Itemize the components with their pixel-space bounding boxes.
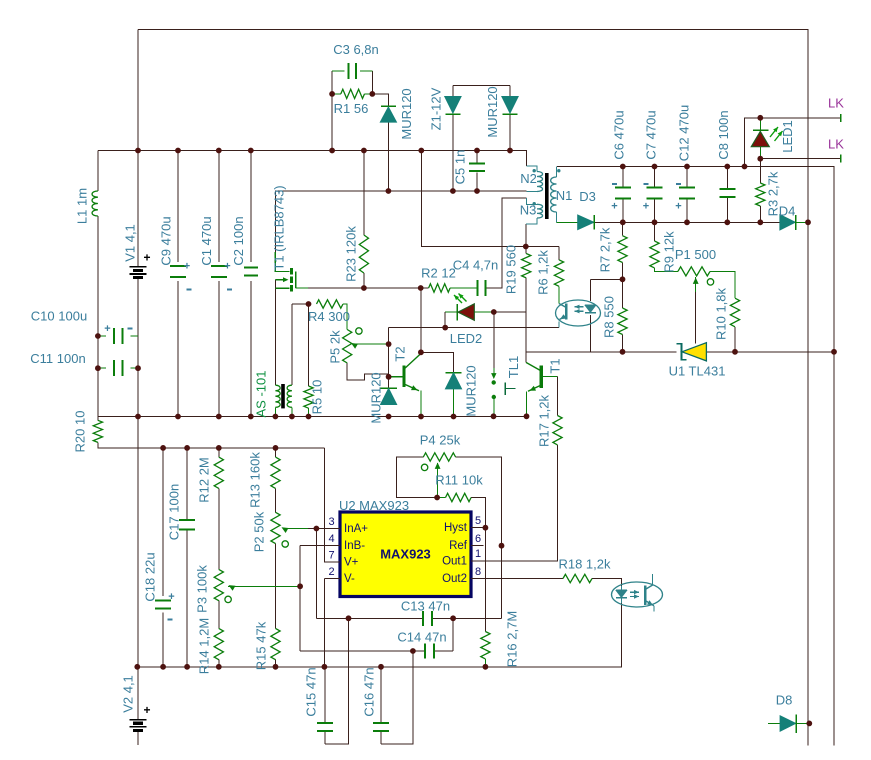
- svg-text:C2 100n: C2 100n: [231, 216, 246, 265]
- svg-text:R9 12k: R9 12k: [662, 231, 677, 273]
- svg-text:5: 5: [475, 515, 481, 527]
- svg-text:R20 10: R20 10: [73, 411, 88, 453]
- svg-text:L1 1m: L1 1m: [74, 188, 89, 224]
- svg-text:8: 8: [475, 566, 481, 578]
- svg-text:U2 MAX923: U2 MAX923: [339, 498, 409, 513]
- svg-text:+: +: [184, 261, 190, 273]
- svg-text:P5 2k: P5 2k: [328, 330, 343, 364]
- svg-text:MUR120: MUR120: [485, 86, 500, 137]
- svg-text:R11 10k: R11 10k: [435, 473, 483, 488]
- svg-text:R13 160k: R13 160k: [248, 452, 263, 508]
- svg-text:+: +: [611, 201, 617, 213]
- svg-text:Ref: Ref: [449, 540, 468, 552]
- svg-text:LED1: LED1: [780, 120, 795, 153]
- svg-text:InA+: InA+: [344, 523, 368, 535]
- svg-text:T1: T1: [548, 358, 563, 373]
- svg-text:MUR120: MUR120: [369, 372, 384, 423]
- svg-text:R8 550: R8 550: [602, 296, 617, 338]
- svg-text:C7 470u: C7 470u: [644, 110, 659, 159]
- svg-text:R1 56: R1 56: [334, 101, 369, 116]
- svg-text:C17 100n: C17 100n: [167, 484, 182, 540]
- svg-text:V-: V-: [344, 573, 355, 585]
- svg-text:R10 1,8k: R10 1,8k: [714, 287, 729, 340]
- svg-text:V+: V+: [344, 557, 359, 569]
- svg-text:V2 4,1: V2 4,1: [121, 675, 136, 713]
- svg-text:C8 100n: C8 100n: [716, 110, 731, 159]
- svg-text:+: +: [675, 201, 681, 213]
- svg-text:1: 1: [475, 548, 481, 560]
- svg-text:P2 50k: P2 50k: [252, 511, 267, 552]
- svg-text:T1 (IRLB8743): T1 (IRLB8743): [272, 185, 287, 270]
- svg-text:C10 100u: C10 100u: [31, 309, 87, 324]
- svg-text:C3 6,8n: C3 6,8n: [333, 42, 379, 57]
- svg-text:C15 47n: C15 47n: [304, 667, 319, 716]
- svg-text:R23 120k: R23 120k: [344, 226, 359, 282]
- svg-text:C16 47n: C16 47n: [362, 667, 377, 716]
- svg-text:MUR120: MUR120: [463, 365, 478, 416]
- svg-text:+: +: [224, 261, 230, 273]
- svg-text:TL1: TL1: [506, 356, 521, 378]
- svg-text:Out1: Out1: [442, 555, 467, 567]
- svg-text:C13 47n: C13 47n: [401, 599, 450, 614]
- svg-text:R7 2,7k: R7 2,7k: [598, 227, 613, 272]
- svg-text:Z1-12V: Z1-12V: [429, 87, 444, 130]
- svg-text:+: +: [143, 251, 150, 265]
- svg-text:LK: LK: [828, 137, 844, 152]
- svg-text:Out2: Out2: [442, 573, 467, 585]
- svg-text:+: +: [104, 323, 110, 335]
- svg-text:N1: N1: [556, 188, 573, 203]
- svg-text:P1 500: P1 500: [675, 247, 716, 262]
- svg-text:LK: LK: [828, 96, 844, 111]
- svg-text:C18 22u: C18 22u: [143, 552, 158, 601]
- svg-text:C4 4,7n: C4 4,7n: [453, 258, 499, 273]
- svg-text:N2: N2: [520, 171, 537, 186]
- svg-text:R16 2,7M: R16 2,7M: [505, 611, 520, 667]
- svg-text:R2 12: R2 12: [421, 266, 456, 281]
- svg-text:N3: N3: [520, 203, 537, 218]
- svg-text:R18 1,2k: R18 1,2k: [558, 557, 611, 572]
- svg-text:C9 470u: C9 470u: [159, 216, 174, 265]
- svg-text:AS -101: AS -101: [254, 371, 269, 418]
- svg-text:LED2: LED2: [450, 331, 483, 346]
- svg-text:R4 300: R4 300: [308, 309, 350, 324]
- svg-text:4: 4: [328, 533, 334, 545]
- svg-text:+: +: [143, 703, 150, 717]
- svg-text:R5 10: R5 10: [310, 380, 325, 415]
- svg-text:C12 470u: C12 470u: [677, 105, 692, 161]
- svg-text:+: +: [168, 591, 174, 603]
- svg-text:R19 560: R19 560: [504, 245, 519, 294]
- svg-text:C11 100n: C11 100n: [30, 351, 85, 366]
- svg-text:InB-: InB-: [344, 540, 365, 552]
- svg-text:Hyst: Hyst: [444, 522, 468, 534]
- svg-text:MAX923: MAX923: [380, 547, 431, 562]
- svg-text:+: +: [643, 201, 649, 213]
- svg-text:2: 2: [328, 566, 334, 578]
- svg-text:6: 6: [475, 533, 481, 545]
- svg-text:R15 47k: R15 47k: [254, 621, 269, 670]
- svg-text:7: 7: [328, 550, 334, 562]
- svg-text:V1 4,1: V1 4,1: [123, 224, 138, 262]
- svg-text:C14 47n: C14 47n: [397, 630, 446, 645]
- svg-text:R17 1,2k: R17 1,2k: [537, 394, 552, 447]
- svg-text:MUR120: MUR120: [399, 88, 414, 139]
- svg-text:R14 1,2M: R14 1,2M: [197, 618, 212, 674]
- svg-text:U1 TL431: U1 TL431: [669, 364, 726, 379]
- svg-text:D8: D8: [776, 693, 793, 708]
- svg-text:C1 470u: C1 470u: [199, 216, 214, 265]
- svg-text:P4 25k: P4 25k: [420, 433, 461, 448]
- svg-text:C5 1n: C5 1n: [453, 150, 468, 185]
- svg-text:R3 2,7k: R3 2,7k: [766, 171, 781, 216]
- svg-text:R6 1,2k: R6 1,2k: [536, 250, 551, 295]
- svg-text:T2: T2: [393, 346, 408, 361]
- svg-text:C6 470u: C6 470u: [612, 110, 627, 159]
- svg-text:P3 100k: P3 100k: [195, 565, 210, 613]
- svg-text:3: 3: [328, 516, 334, 528]
- svg-text:D4: D4: [779, 204, 796, 219]
- svg-text:R12 2M: R12 2M: [197, 457, 212, 503]
- svg-text:D3: D3: [579, 189, 596, 204]
